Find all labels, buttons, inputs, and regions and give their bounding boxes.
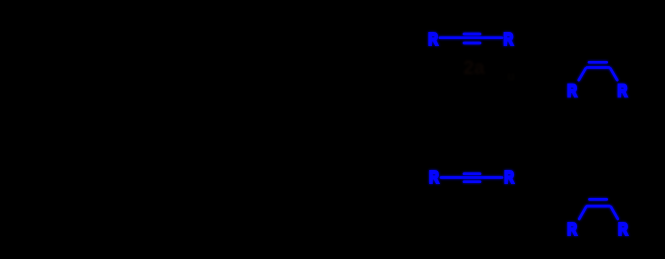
alkyne 1 : R-C / C-R single bonds + triple bond centre line	[440, 36, 502, 39]
cis-alkene 1 : R label left	[567, 80, 577, 100]
svg-text:2a: 2a	[463, 58, 485, 79]
cis-alkene 1 : right C-R bond	[610, 69, 617, 81]
svg-text:R: R	[504, 167, 514, 187]
cis-alkene 2 : right C-R bond	[611, 207, 618, 219]
svg-text:R: R	[567, 80, 577, 100]
alkyne 1 : R label left	[428, 29, 438, 49]
faint catalyst label over upper reaction arrow	[463, 58, 514, 83]
cis-alkene 2 : double bond inner line	[590, 198, 607, 201]
alkyne 2 : R label left	[429, 167, 439, 187]
cis-alkene 1 : left C-R bond	[579, 69, 586, 81]
cis-alkene 2 : R label right	[618, 219, 628, 239]
alkyne 2 : R-C / C-R single bonds + triple bond centre line	[441, 176, 502, 179]
svg-text:u: u	[508, 69, 515, 83]
cis-alkene 1 : C=C main bond line	[587, 66, 609, 69]
cis-alkene 2 : left C-R bond	[579, 207, 586, 219]
alkyne 1 : triple bond lower line	[464, 42, 480, 45]
alkyne 2 : R label right	[504, 167, 514, 187]
alkyne 1 : triple bond upper line	[464, 33, 480, 36]
cis-alkene 2 : R label left	[567, 219, 577, 239]
svg-text:R: R	[429, 167, 439, 187]
alkyne 2 : triple bond lower line	[464, 180, 480, 183]
alkyne 2 : triple bond upper line	[464, 172, 480, 175]
svg-text:R: R	[618, 80, 628, 100]
svg-text:R: R	[428, 29, 438, 49]
cis-alkene 2 : C=C main bond line	[587, 205, 610, 208]
svg-text:R: R	[567, 219, 577, 239]
svg-text:R: R	[618, 219, 628, 239]
svg-text:R: R	[504, 29, 514, 49]
alkyne 1 : R label right	[504, 29, 514, 49]
cis-alkene 1 : R label right	[618, 80, 628, 100]
cis-alkene 1 : double bond inner line	[589, 61, 607, 64]
